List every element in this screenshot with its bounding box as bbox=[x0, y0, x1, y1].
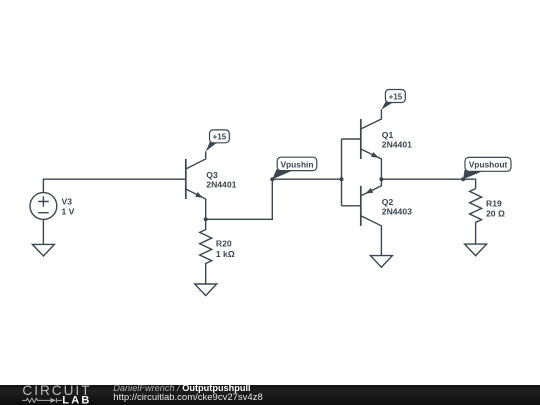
transistor Q2 collector bbox=[361, 216, 382, 256]
footer bar bbox=[0, 385, 540, 405]
net flag Vpushout bbox=[465, 157, 511, 171]
power flag +15 (Q1) bbox=[385, 90, 405, 103]
svg-text:+15: +15 bbox=[213, 133, 227, 142]
svg-text:Q3: Q3 bbox=[206, 170, 218, 180]
CircuitLab logo waveform (resistor + diode) bbox=[22, 398, 62, 403]
svg-text:R20: R20 bbox=[216, 239, 232, 249]
power flag +15 (Q3) pointer bbox=[206, 140, 218, 151]
svg-text:Q1: Q1 bbox=[382, 130, 394, 140]
wire to Q1 base bbox=[342, 138, 361, 140]
ground under R19 bbox=[465, 244, 487, 256]
svg-text:Vpushin: Vpushin bbox=[280, 159, 313, 169]
svg-text:Q2: Q2 bbox=[382, 197, 394, 207]
svg-text:2N4401: 2N4401 bbox=[206, 180, 236, 190]
power flag +15 (Q3) bbox=[210, 130, 230, 143]
wire output to R19 bbox=[381, 179, 475, 188]
wire emitter node to Vpushin anchor bbox=[206, 179, 273, 219]
wire to Q2 base bbox=[342, 205, 361, 207]
power flag +15 (Q1) pointer bbox=[381, 100, 393, 110]
ground under V3 bbox=[32, 244, 54, 256]
svg-text:2N4403: 2N4403 bbox=[382, 207, 412, 217]
node Vpushout anchor bbox=[461, 177, 465, 181]
net flag Vpushin pointer bbox=[272, 169, 293, 179]
net flag Vpushin bbox=[277, 157, 317, 170]
svg-text:1 V: 1 V bbox=[62, 207, 75, 217]
ground under Q2 bbox=[370, 256, 392, 268]
svg-text:LAB: LAB bbox=[62, 395, 91, 405]
wire V3 top to Q3 base bbox=[43, 179, 185, 192]
transistor Q3 collector bbox=[186, 151, 206, 169]
transistor Q1 collector bbox=[361, 109, 382, 129]
transistor Q3 emitter bbox=[186, 189, 206, 219]
transistor Q3 bar bbox=[185, 159, 187, 199]
svg-text:+15: +15 bbox=[389, 92, 403, 101]
resistor R20 bbox=[200, 219, 212, 284]
transistor Q1 bar bbox=[360, 119, 362, 159]
transistor Q2 bar bbox=[360, 186, 362, 226]
svg-text:R19: R19 bbox=[486, 198, 502, 208]
voltage source V3 bbox=[30, 193, 57, 220]
svg-text:V3: V3 bbox=[62, 196, 73, 206]
svg-text:20 Ω: 20 Ω bbox=[486, 209, 505, 219]
svg-text:1 kΩ: 1 kΩ bbox=[216, 249, 235, 259]
node Q1/Q2 emitter junction bbox=[379, 177, 383, 181]
node base junction bbox=[340, 177, 344, 181]
svg-text:2N4401: 2N4401 bbox=[382, 140, 412, 150]
svg-text:Vpushout: Vpushout bbox=[469, 160, 508, 170]
transistor Q3 emitter arrow bbox=[195, 192, 203, 198]
svg-text:http://circuitlab.com/cke9cv27: http://circuitlab.com/cke9cv27sv4z8 bbox=[113, 392, 262, 403]
wire Vpushin to base junction bbox=[272, 178, 341, 180]
transistor Q2 emitter bbox=[361, 179, 382, 196]
net flag Vpushout pointer bbox=[463, 170, 482, 179]
node Q3 emitter junction bbox=[204, 217, 208, 221]
transistor Q2 emitter arrow bbox=[365, 188, 373, 194]
transistor Q1 emitter bbox=[361, 149, 382, 179]
resistor R19 bbox=[470, 189, 482, 245]
transistor Q1 emitter arrow bbox=[371, 152, 379, 158]
wire V3 bottom to ground bbox=[42, 219, 44, 244]
wire base bus vertical bbox=[341, 139, 343, 206]
ground under R20 bbox=[195, 284, 217, 296]
node Vpushin anchor bbox=[270, 177, 274, 181]
